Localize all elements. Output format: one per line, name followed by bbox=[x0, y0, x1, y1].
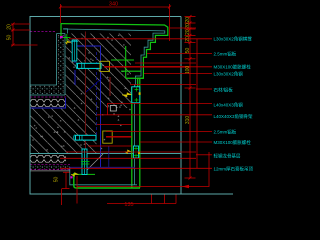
leader vertical x209 bbox=[77, 152, 209, 187]
leader spine vertical bbox=[196, 39, 198, 169]
honeycomb band 1 blue border bbox=[30, 98, 66, 108]
ceiling green small horizontal bbox=[75, 173, 96, 175]
stipple band bottom bbox=[30, 165, 70, 170]
bolt B horizontal expansion bolt bbox=[76, 63, 101, 70]
bolt E hanger at ceiling bbox=[81, 149, 90, 175]
bolt B2 horizontal lower expansion bolt bbox=[74, 135, 96, 141]
grey plaster line bottom bbox=[30, 170, 70, 172]
svg-text:2.5mm铝板: 2.5mm铝板 bbox=[214, 51, 237, 58]
svg-text:轻钢龙骨基层: 轻钢龙骨基层 bbox=[214, 153, 241, 160]
magenta dashed line below honeycomb 2 bbox=[30, 163, 70, 165]
bolt B embedded red line bbox=[104, 66, 190, 68]
bolt A magenta block bbox=[60, 36, 63, 38]
bolt B2 anchor plate yellow bbox=[103, 131, 112, 143]
svg-text:2.5mm铝板: 2.5mm铝板 bbox=[214, 129, 237, 136]
green top-left corner vertical bbox=[60, 24, 62, 37]
speckles bbox=[32, 35, 131, 150]
green hanger vertical bbox=[125, 46, 127, 78]
wall void black area bbox=[30, 34, 57, 86]
cornice outer green profile bbox=[61, 24, 168, 188]
teal inner corner vertical bbox=[63, 29, 67, 34]
dark blue ceiling line bbox=[69, 166, 135, 168]
yellow arrow C bbox=[125, 150, 131, 154]
magenta dashed line above honeycomb 1 bbox=[30, 96, 66, 98]
magenta dashed line wall top bbox=[30, 31, 57, 33]
honeycomb band 2 bbox=[30, 154, 66, 164]
dark blue leader diagonal lower bbox=[84, 154, 103, 173]
cornice interior void mask bbox=[131, 34, 167, 79]
svg-text:L40x40X3角钢: L40x40X3角钢 bbox=[214, 102, 244, 109]
bolt C yellow dot bbox=[139, 92, 141, 95]
svg-text:M30X100膨胀螺栓: M30X100膨胀螺栓 bbox=[214, 64, 252, 71]
magenta dashed line bottom band bbox=[30, 169, 70, 171]
bottom dim 135 line bbox=[107, 195, 176, 204]
bolt D yellow dot bbox=[138, 152, 140, 155]
magenta dots bottom detail bbox=[70, 176, 72, 178]
yellow arrow B bbox=[122, 93, 132, 97]
svg-text:50: 50 bbox=[185, 48, 191, 54]
concrete box blue border bbox=[75, 46, 101, 167]
cornice inner teal profile bbox=[63, 29, 165, 185]
concrete hatch region right of wall bbox=[66, 34, 132, 109]
hidden blue vertical dashed bbox=[96, 52, 98, 135]
maroon stud vertical bbox=[84, 32, 86, 151]
bolt B2 embedded red line bbox=[106, 136, 132, 138]
ceiling teal line bbox=[30, 153, 181, 155]
bolt D on channel lower bbox=[133, 146, 138, 158]
red vertical x77 bbox=[76, 176, 78, 204]
yellow arrow D bbox=[71, 173, 79, 177]
svg-text:M30X100膨胀螺栓: M30X100膨胀螺栓 bbox=[214, 139, 252, 146]
svg-text:100: 100 bbox=[185, 66, 191, 75]
svg-text:50: 50 bbox=[54, 177, 60, 183]
ceiling edge teal L profile bbox=[70, 168, 137, 185]
bolt A green angle vertical bbox=[63, 34, 71, 42]
svg-text:310: 310 bbox=[185, 116, 191, 125]
dark blue leader diagonal upper bbox=[86, 78, 102, 92]
bottom small dim 50 bbox=[62, 172, 70, 205]
svg-text:340: 340 bbox=[109, 2, 118, 8]
svg-text:135: 135 bbox=[124, 202, 133, 207]
svg-text:L30x30X2角钢: L30x30X2角钢 bbox=[214, 71, 244, 78]
stipple strip teal borders bbox=[30, 34, 65, 96]
bolt C on channel upper bbox=[132, 87, 140, 103]
left dim chain lines bbox=[11, 23, 38, 47]
concrete hatch region below honeycomb band bbox=[30, 108, 66, 154]
plaster stipple horizontal strip bbox=[30, 85, 57, 95]
svg-text:L40X40X3角钢骨架: L40X40X3角钢骨架 bbox=[214, 113, 254, 120]
bolt B anchor plate yellow bbox=[100, 61, 110, 71]
svg-text:L30x30X2角钢横撑: L30x30X2角钢横撑 bbox=[214, 36, 253, 43]
maroon vertical short bbox=[109, 77, 111, 96]
outer wall boundary teal box bbox=[30, 17, 233, 195]
outer wall right edge teal bbox=[180, 17, 182, 195]
green bracket horizontal upper bbox=[111, 59, 134, 61]
green bracket horizontal lower bbox=[121, 70, 141, 72]
plaster stipple vertical strip bbox=[57, 34, 66, 96]
yellow arrow A bbox=[65, 41, 70, 45]
svg-text:12mm厚石膏板吊顶: 12mm厚石膏板吊顶 bbox=[214, 166, 254, 173]
right dim chain vertical bbox=[185, 15, 196, 180]
white reference square bbox=[110, 106, 116, 112]
svg-text:20: 20 bbox=[185, 17, 191, 23]
svg-text:50: 50 bbox=[7, 35, 13, 41]
dim 340 top line bbox=[59, 4, 171, 41]
svg-text:20: 20 bbox=[7, 24, 13, 30]
svg-text:20: 20 bbox=[185, 29, 191, 35]
green channel right vertical bbox=[139, 78, 141, 187]
green channel cap horizontal bbox=[126, 77, 143, 79]
svg-text:石材/铝板: 石材/铝板 bbox=[214, 87, 234, 94]
concrete box blue left lower bbox=[74, 70, 76, 85]
ceiling edge green L profile bbox=[74, 173, 140, 188]
dark blue vertical gypsum edge bbox=[108, 146, 110, 167]
honeycomb band 1 bbox=[30, 98, 66, 108]
red leader lines horizontals bbox=[60, 28, 212, 168]
leader arrow at wall edge bbox=[182, 185, 189, 188]
bolt A vertical at wall top bbox=[71, 40, 79, 61]
